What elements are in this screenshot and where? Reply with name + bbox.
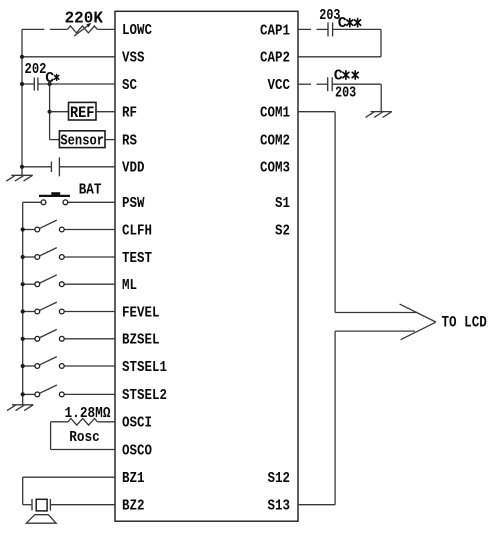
- wire OSCI: [97, 421, 115, 423]
- svg-text:RF: RF: [122, 105, 137, 122]
- wire LOWC net: [22, 28, 44, 30]
- svg-text:S13: S13: [268, 498, 291, 515]
- junction VSS rail: [20, 55, 24, 59]
- svg-text:BZ2: BZ2: [122, 498, 145, 515]
- svg-text:TEST: TEST: [122, 250, 152, 267]
- wire CAP1 loop: [333, 28, 381, 30]
- svg-text:Rosc: Rosc: [69, 429, 100, 446]
- wire branch vertical REF/Sensor: [49, 84, 51, 140]
- ground rail1: [11, 174, 32, 176]
- wire left rail switches: [22, 202, 24, 404]
- svg-text:BZ1: BZ1: [122, 470, 145, 487]
- svg-text:CAP1: CAP1: [260, 22, 290, 39]
- wire BZ1: [23, 476, 115, 478]
- svg-text:VSS: VSS: [122, 50, 145, 67]
- svg-text:SC: SC: [122, 77, 137, 94]
- svg-text:COM1: COM1: [260, 105, 290, 122]
- switch CLFH: [23, 229, 35, 231]
- block Sensor: [59, 131, 105, 148]
- switch BZSEL: [23, 338, 35, 340]
- pushbutton BAT: [41, 200, 46, 205]
- battery BAT cell: [50, 162, 52, 173]
- svg-text:STSEL1: STSEL1: [122, 359, 167, 376]
- svg-text:BAT: BAT: [79, 182, 102, 199]
- svg-text:OSCO: OSCO: [122, 442, 152, 459]
- svg-text:FEVEL: FEVEL: [122, 304, 160, 321]
- svg-text:TO LCD: TO LCD: [442, 314, 487, 332]
- resistor 220K: [67, 26, 97, 33]
- svg-text:OSCI: OSCI: [122, 415, 152, 432]
- svg-text:S1: S1: [275, 195, 290, 212]
- wire VSS: [22, 56, 115, 58]
- wire VDD left: [22, 166, 51, 168]
- wire to Sensor: [50, 139, 60, 141]
- junction RF branch: [48, 110, 52, 114]
- junction rail CLFH: [21, 227, 25, 231]
- junction rail ML: [21, 282, 25, 286]
- wire Rosc left: [51, 421, 68, 423]
- switch FEVEL: [23, 311, 35, 313]
- wire pushbutton to PSW: [68, 201, 115, 203]
- ground VCC: [371, 111, 392, 113]
- wire COM1 to bus: [298, 111, 335, 113]
- svg-text:LOWC: LOWC: [122, 22, 152, 39]
- wire VCC left: [298, 83, 311, 85]
- svg-text:CLFH: CLFH: [122, 222, 152, 239]
- svg-text:S2: S2: [275, 222, 290, 239]
- svg-text:VCC: VCC: [268, 77, 291, 94]
- resistor Rosc 1.28M: [68, 419, 97, 426]
- switch TEST: [23, 256, 35, 258]
- junction rail STSEL2: [21, 392, 25, 396]
- svg-text:203: 203: [335, 85, 356, 102]
- junction rail FEVEL: [21, 309, 25, 313]
- ground rail2: [12, 404, 33, 406]
- block REF: [69, 102, 97, 120]
- svg-text:Sensor: Sensor: [60, 132, 104, 149]
- wire BZ2: [50, 504, 115, 506]
- svg-text:VDD: VDD: [122, 160, 145, 177]
- wire to REF: [50, 111, 69, 113]
- switch STSEL1: [23, 365, 35, 367]
- wire battery to VDD: [59, 166, 115, 168]
- wire left rail VSS-VDD: [21, 29, 23, 175]
- wire Sensor to RS: [105, 139, 115, 141]
- svg-text:COM3: COM3: [260, 160, 290, 177]
- svg-text:RS: RS: [122, 132, 137, 149]
- svg-text:PSW: PSW: [122, 195, 145, 212]
- junction rail TEST: [21, 255, 25, 259]
- switch ML: [23, 283, 35, 285]
- junction rail BZSEL: [21, 337, 25, 341]
- junction node C*: [48, 82, 52, 86]
- svg-text:ML: ML: [122, 277, 137, 294]
- svg-text:COM2: COM2: [260, 133, 290, 150]
- svg-text:REF: REF: [70, 104, 95, 122]
- wire REF to RF: [96, 111, 115, 113]
- svg-text:STSEL2: STSEL2: [122, 387, 167, 404]
- svg-text:220K: 220K: [65, 9, 104, 28]
- wire VCC to ground: [332, 83, 381, 85]
- svg-text:202: 202: [25, 61, 47, 78]
- svg-text:S12: S12: [268, 470, 291, 487]
- svg-text:CAP2: CAP2: [260, 50, 290, 67]
- wire OSCO: [51, 449, 115, 451]
- wire 220K to LOWC: [97, 28, 115, 30]
- junction VDD rail: [20, 165, 24, 169]
- wire bus to S13: [334, 331, 336, 505]
- wire CAP1 left: [298, 28, 311, 30]
- wire SC to IC: [38, 83, 115, 85]
- switch STSEL2: [23, 393, 35, 395]
- capacitor C* 202: [33, 77, 35, 90]
- capacitor C** 203 top: [327, 22, 329, 36]
- capacitor C** 203 vcc: [327, 77, 329, 91]
- wire SC left: [22, 83, 34, 85]
- bus arrow to LCD: [335, 312, 417, 314]
- junction rail STSEL1: [21, 364, 25, 368]
- IC U1: [115, 11, 298, 521]
- wire rail to pushbutton: [23, 201, 41, 203]
- junction SC rail: [20, 82, 24, 86]
- buzzer BZ: [31, 499, 33, 511]
- svg-text:BZSEL: BZSEL: [122, 332, 160, 349]
- svg-text:C: C: [334, 67, 343, 84]
